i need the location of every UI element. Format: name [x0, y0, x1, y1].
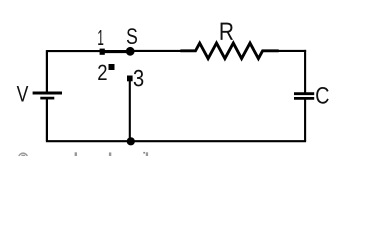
capacitor C top plate	[294, 92, 314, 95]
label R	[221, 23, 233, 40]
copyright glyph (cut off at bottom edge)	[19, 153, 28, 162]
label 2	[98, 65, 106, 80]
label C	[316, 87, 329, 104]
battery V long plate	[33, 92, 62, 95]
switch blade from 1 to S	[102, 50, 130, 53]
wire bottom	[46, 140, 306, 142]
switch contact 2 (square)	[109, 64, 115, 70]
copyright text ascender strokes (cut off)	[75, 152, 77, 156]
wire right side below capacitor	[304, 100, 306, 142]
label S	[127, 28, 137, 44]
wire resistor to top-right corner	[278, 50, 306, 52]
label 3	[134, 70, 144, 87]
capacitor C bottom plate	[294, 97, 314, 100]
wire from switch pivot to resistor	[130, 50, 181, 52]
wire left side above battery	[46, 50, 48, 92]
wire left side below battery	[46, 99, 48, 142]
label V	[17, 86, 29, 102]
battery V short plate	[40, 97, 54, 100]
junction node (dot) at bottom	[127, 137, 135, 145]
switch pivot S (dot)	[126, 47, 135, 56]
switch contact 3 (square)	[127, 76, 133, 82]
wire from contact 3 down to bottom junction	[129, 79, 131, 141]
switch contact 1 (square)	[100, 49, 105, 55]
resistor R zigzag	[180, 43, 278, 59]
wire top-left segment	[47, 50, 100, 52]
wire right side above capacitor	[304, 50, 306, 93]
label 1	[98, 30, 103, 45]
